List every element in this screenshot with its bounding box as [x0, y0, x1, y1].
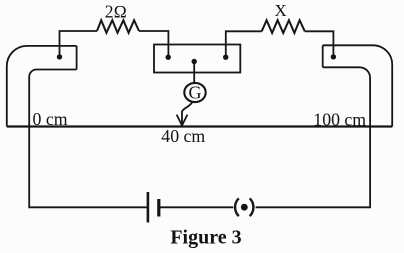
terminal dot middle-strip left: [166, 55, 171, 60]
svg-text:X: X: [274, 1, 286, 20]
terminal dot middle-strip right: [223, 55, 228, 60]
wire key to right branch: [256, 126, 371, 207]
resistor X: [226, 20, 334, 57]
left copper strip: [7, 46, 77, 127]
terminal dot on left strip: [57, 54, 62, 59]
svg-text:Figure 3: Figure 3: [170, 227, 241, 249]
wire left branch down to battery loop: [29, 126, 147, 207]
svg-text:2Ω: 2Ω: [105, 1, 127, 21]
wire battery to key: [160, 206, 233, 208]
middle copper strip: [154, 45, 240, 73]
right copper strip: [323, 45, 393, 126]
terminal dot middle-strip centre: [192, 59, 197, 64]
svg-text:40 cm: 40 cm: [161, 126, 205, 146]
svg-text:0 cm: 0 cm: [33, 109, 68, 129]
bridge wire (0 to 100 cm): [7, 125, 393, 127]
plug key: [235, 198, 253, 216]
battery cell: [148, 192, 159, 223]
svg-text:100 cm: 100 cm: [313, 109, 366, 129]
resistor R1 (2 ohm): [60, 20, 169, 57]
jockey wire with arrow to 40 cm point: [177, 102, 193, 126]
terminal dot on right strip: [331, 54, 336, 59]
svg-text:G: G: [189, 83, 202, 103]
galvanometer G: [184, 62, 205, 103]
